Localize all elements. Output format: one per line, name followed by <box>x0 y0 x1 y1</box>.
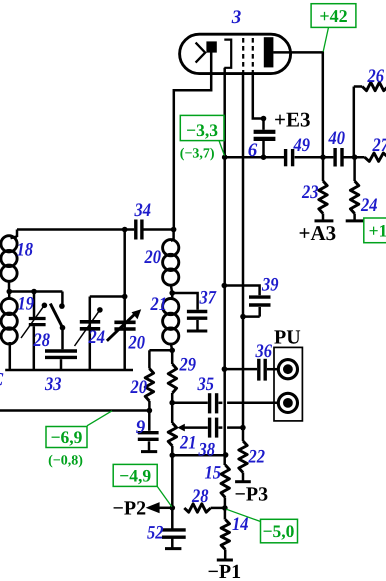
svg-text:28: 28 <box>191 486 209 507</box>
svg-text:C: C <box>0 370 4 391</box>
svg-text:24: 24 <box>88 327 105 348</box>
svg-text:40: 40 <box>328 128 346 149</box>
svg-text:23: 23 <box>301 182 318 203</box>
svg-text:(−3,7): (−3,7) <box>180 147 215 162</box>
svg-text:PU: PU <box>274 327 301 349</box>
svg-text:14: 14 <box>232 514 249 535</box>
svg-text:−5,0: −5,0 <box>263 521 295 541</box>
svg-text:−3,3: −3,3 <box>186 120 218 140</box>
svg-text:38: 38 <box>198 440 216 461</box>
svg-text:20: 20 <box>144 247 162 268</box>
svg-text:21: 21 <box>179 433 196 454</box>
svg-text:28: 28 <box>33 330 51 351</box>
svg-text:49: 49 <box>293 135 311 156</box>
svg-text:35: 35 <box>197 374 215 395</box>
svg-text:+E3: +E3 <box>274 108 310 132</box>
svg-text:+1: +1 <box>369 221 386 241</box>
svg-text:36: 36 <box>255 341 273 362</box>
svg-text:39: 39 <box>261 275 279 296</box>
svg-text:37: 37 <box>199 288 218 309</box>
svg-text:21: 21 <box>150 294 167 315</box>
svg-text:19: 19 <box>18 294 35 315</box>
svg-text:20: 20 <box>130 377 148 398</box>
svg-text:+A3: +A3 <box>299 221 337 245</box>
svg-text:9: 9 <box>136 417 146 438</box>
svg-text:6: 6 <box>248 140 258 161</box>
svg-text:24: 24 <box>360 195 377 216</box>
svg-text:−4,9: −4,9 <box>119 466 151 486</box>
svg-text:−P3: −P3 <box>235 484 269 506</box>
svg-text:(−0,8): (−0,8) <box>48 454 83 469</box>
svg-text:27: 27 <box>372 135 386 156</box>
svg-text:29: 29 <box>179 355 197 376</box>
svg-text:3: 3 <box>231 7 242 28</box>
svg-text:52: 52 <box>147 523 164 544</box>
svg-text:26: 26 <box>367 66 385 87</box>
svg-text:33: 33 <box>44 374 61 395</box>
svg-text:34: 34 <box>134 200 151 221</box>
svg-text:18: 18 <box>17 240 34 261</box>
svg-text:−P2: −P2 <box>113 498 147 520</box>
svg-text:−6,9: −6,9 <box>51 427 83 447</box>
svg-text:20: 20 <box>128 333 146 354</box>
svg-text:−P1: −P1 <box>208 561 242 581</box>
svg-text:+42: +42 <box>319 6 347 26</box>
svg-text:15: 15 <box>205 463 222 484</box>
svg-text:22: 22 <box>248 447 266 468</box>
